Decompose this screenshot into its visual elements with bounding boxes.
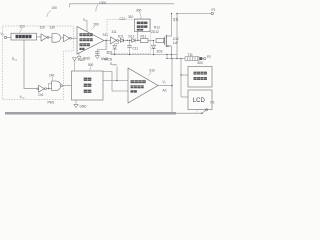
- connector symbol: [185, 57, 199, 61]
- wire to comparator: [72, 37, 78, 39]
- dashed box 300: [107, 20, 151, 54]
- diode D12: [128, 39, 132, 41]
- LCD to bus: [196, 110, 198, 113]
- wire up to block 310: [137, 32, 139, 41]
- buffer inverter in 300: [111, 37, 117, 44]
- label Q11: [173, 18, 179, 22]
- svg-text:T11: T11: [188, 53, 193, 57]
- MOSFET Q11: [164, 37, 166, 45]
- svg-text:Vin: Vin: [1, 32, 6, 37]
- svg-text:AC: AC: [163, 89, 168, 93]
- NAND gate 140: [52, 81, 61, 90]
- series resistor R12 box: [156, 39, 164, 43]
- svg-text:S11: S11: [103, 33, 109, 37]
- bottom rail in 300: [111, 54, 178, 56]
- box LCD: [188, 90, 212, 110]
- label 200: [94, 23, 100, 27]
- bottom-left signal wire: [24, 40, 37, 89]
- svg-text:500: 500: [88, 63, 94, 67]
- svg-text:P1: P1: [212, 8, 216, 12]
- comparator ground: [78, 53, 80, 56]
- label 100: [52, 6, 58, 10]
- wire: [49, 36, 52, 38]
- svg-text:130: 130: [50, 26, 56, 30]
- block 500: [72, 71, 104, 100]
- svg-text:1000: 1000: [99, 1, 106, 5]
- svg-text:LCD: LCD: [193, 98, 206, 104]
- label 1000: [99, 1, 106, 5]
- zener ZD11: [115, 40, 119, 45]
- wire: [7, 36, 11, 38]
- terminal Vin: [4, 36, 6, 38]
- feeder rail to boxes: [180, 59, 182, 98]
- output wire: [104, 40, 111, 42]
- big triangle 610 driver: [128, 68, 158, 103]
- feeder wire from P1 rail: [176, 14, 178, 59]
- right rail: [171, 59, 173, 114]
- svg-text:610: 610: [150, 69, 156, 73]
- block 310 protection: [135, 19, 151, 32]
- svg-text:Dr1: Dr1: [39, 93, 44, 97]
- capacitor C11: [129, 40, 131, 54]
- box 600: [188, 67, 212, 88]
- output wire: [158, 85, 172, 87]
- svg-text:1uF: 1uF: [173, 41, 179, 45]
- label 110: [20, 25, 25, 29]
- label C12: [173, 37, 179, 41]
- bottom inverter: [37, 88, 39, 90]
- ground below 500: [75, 100, 77, 104]
- svg-text:300: 300: [136, 9, 142, 13]
- svg-text:P2: P2: [207, 55, 211, 59]
- top wire to P1: [177, 13, 211, 15]
- label T11: [188, 53, 193, 57]
- overall bracket line: [70, 4, 175, 7]
- tied input stub: [49, 83, 52, 88]
- svg-text:311: 311: [112, 30, 117, 34]
- svg-text:110: 110: [20, 25, 25, 29]
- resistor R11 box: [141, 39, 149, 43]
- inverter 120: [41, 34, 47, 41]
- block 500 outputs: [103, 72, 128, 92]
- svg-text:D12: D12: [129, 34, 135, 38]
- svg-text:600: 600: [198, 61, 204, 65]
- output capacitor to ground: [97, 41, 106, 52]
- label ZD12: [151, 30, 159, 34]
- output node: [105, 40, 106, 41]
- svg-text:SPWM: SPWM: [110, 62, 117, 67]
- svg-text:Vosc: Vosc: [20, 95, 25, 100]
- svg-text:120: 120: [40, 26, 46, 30]
- svg-text:200: 200: [94, 23, 100, 27]
- source wire down: [171, 46, 173, 59]
- svg-text:VDD: VDD: [78, 58, 85, 62]
- svg-text:100: 100: [52, 6, 58, 10]
- svg-text:C10: C10: [120, 17, 126, 21]
- VDD pin: [86, 22, 88, 32]
- wire: [61, 37, 64, 39]
- block 110 reference signal part: [11, 33, 37, 40]
- label C10: [120, 17, 126, 21]
- svg-text:ZD1: ZD1: [107, 51, 113, 55]
- label 500: [88, 63, 94, 67]
- inverter 2: [64, 35, 70, 42]
- gate 130: [52, 34, 61, 43]
- middle right connector row: [167, 58, 185, 60]
- svg-text:Sout: Sout: [12, 57, 17, 62]
- svg-text:C11: C11: [133, 47, 139, 51]
- power symbol above 500: [74, 61, 76, 71]
- svg-text:D11: D11: [118, 34, 124, 38]
- svg-text:140: 140: [49, 74, 55, 78]
- svg-text:GND: GND: [80, 105, 88, 109]
- svg-text:Q11: Q11: [173, 18, 179, 22]
- svg-text:R11: R11: [141, 34, 147, 38]
- svg-text:PW1: PW1: [48, 100, 55, 104]
- zener ZD12: [153, 40, 154, 41]
- diode D11: [118, 39, 120, 41]
- wire: [37, 36, 42, 38]
- ground bus bar: [5, 112, 176, 115]
- bottom right wire to P2: [176, 112, 202, 114]
- drain wire up to P1: [171, 14, 173, 37]
- comparator 200: [77, 27, 104, 55]
- svg-text:310: 310: [128, 15, 134, 19]
- svg-text:ZD12: ZD12: [151, 30, 159, 34]
- svg-text:Vo: Vo: [163, 80, 167, 85]
- svg-text:VDD: VDD: [83, 18, 89, 23]
- svg-text:ZD2: ZD2: [157, 50, 163, 54]
- svg-text:P2: P2: [211, 100, 215, 104]
- dashed box 100: [3, 26, 74, 100]
